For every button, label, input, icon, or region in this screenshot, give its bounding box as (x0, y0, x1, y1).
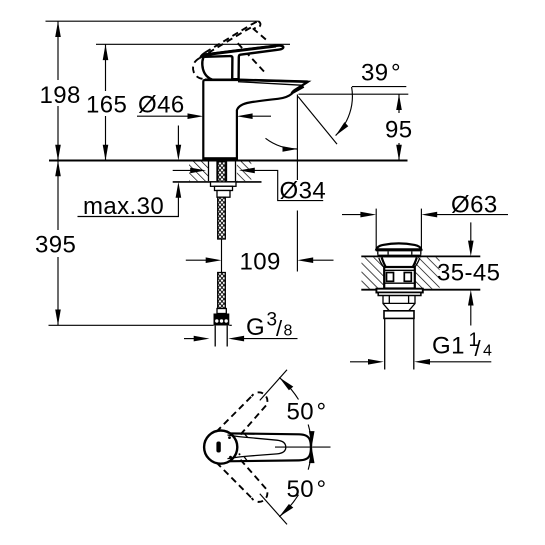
svg-text:39°: 39° (361, 60, 401, 87)
svg-text:G1: G1 (432, 332, 465, 359)
svg-text:Ø46: Ø46 (138, 92, 185, 119)
svg-text:8: 8 (284, 323, 293, 340)
svg-text:Ø63: Ø63 (451, 192, 498, 219)
svg-text:35-45: 35-45 (437, 259, 500, 286)
svg-text:50°: 50° (287, 476, 327, 503)
svg-text:/: / (475, 336, 482, 361)
svg-text:95: 95 (385, 117, 413, 144)
svg-text:4: 4 (483, 343, 492, 360)
svg-text:G: G (246, 314, 265, 341)
svg-text:198: 198 (40, 82, 81, 109)
svg-text:Ø34: Ø34 (280, 178, 327, 205)
svg-text:max.30: max.30 (83, 193, 164, 220)
svg-text:/: / (276, 316, 283, 341)
svg-text:109: 109 (240, 248, 281, 275)
svg-text:165: 165 (86, 92, 127, 119)
svg-text:50°: 50° (287, 398, 327, 425)
svg-text:395: 395 (35, 231, 76, 258)
